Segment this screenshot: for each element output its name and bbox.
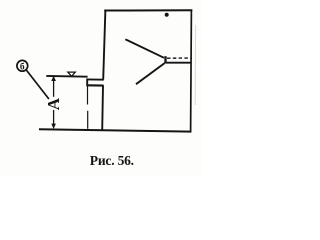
svg-text:б: б <box>20 61 25 72</box>
svg-text:Рис. 56.: Рис. 56. <box>90 153 134 168</box>
svg-text:A: A <box>44 97 63 110</box>
